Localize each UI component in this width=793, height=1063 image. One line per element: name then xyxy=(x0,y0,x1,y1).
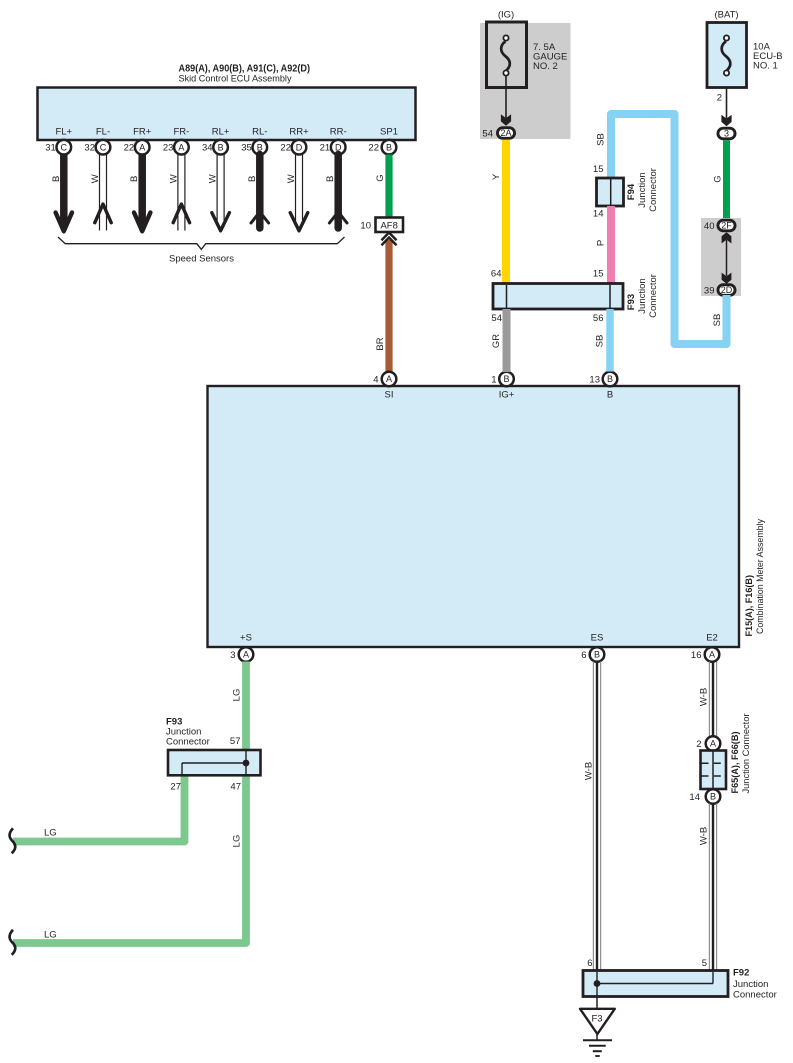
svg-text:RR-: RR- xyxy=(330,127,347,138)
svg-text:2A: 2A xyxy=(500,128,511,138)
junction connector F93 (upper) xyxy=(493,274,659,318)
svg-text:B: B xyxy=(607,390,613,401)
svg-text:22: 22 xyxy=(124,143,135,154)
svg-text:SI: SI xyxy=(385,390,394,401)
svg-text:F93: F93 xyxy=(626,294,637,310)
wire SB from 2D to F94 pin 15 xyxy=(595,114,726,344)
svg-text:3: 3 xyxy=(230,650,235,661)
svg-text:FL+: FL+ xyxy=(55,127,72,138)
wire W-B from E2 to F65 xyxy=(698,662,716,737)
svg-text:G: G xyxy=(712,175,723,182)
ECU pin 23 (A) FR- xyxy=(163,127,189,155)
svg-text:6: 6 xyxy=(581,650,586,661)
junction connector F65(A), F66(B) xyxy=(701,714,752,794)
svg-text:BR: BR xyxy=(375,337,386,350)
svg-text:57: 57 xyxy=(230,736,241,747)
svg-text:Junction: Junction xyxy=(637,278,648,313)
ECU pin 35 (B) RL- xyxy=(241,127,267,155)
svg-text:13: 13 xyxy=(589,375,600,386)
svg-text:39: 39 xyxy=(704,286,715,297)
wire break symbol (lower left 1) xyxy=(10,828,16,853)
svg-text:C: C xyxy=(100,142,107,152)
svg-text:A: A xyxy=(243,650,249,660)
svg-text:B: B xyxy=(594,650,600,660)
IG power gray block xyxy=(480,23,571,139)
svg-text:IG+: IG+ xyxy=(499,390,515,401)
svg-text:NO. 1: NO. 1 xyxy=(753,61,778,72)
speed sensor wire FR+ (B) xyxy=(129,155,150,232)
meter pin 16 (A) E2 xyxy=(691,632,719,662)
svg-text:P: P xyxy=(595,240,606,246)
svg-text:SB: SB xyxy=(712,314,723,327)
fuse 7.5A GAUGE NO.2 xyxy=(487,22,568,88)
svg-text:+S: +S xyxy=(240,632,252,643)
svg-text:54: 54 xyxy=(491,313,502,324)
speed sensor wire RR+ (W) xyxy=(286,155,308,231)
svg-text:(IG): (IG) xyxy=(498,10,514,21)
svg-text:F15(A), F16(B): F15(A), F16(B) xyxy=(744,575,755,637)
svg-text:32: 32 xyxy=(84,143,95,154)
speed sensor wire RR- (B) xyxy=(325,155,347,229)
double arrow 2F to 2D xyxy=(722,232,732,284)
meter pin 4 (A) SI xyxy=(373,372,396,401)
svg-text:SB: SB xyxy=(595,133,606,146)
svg-text:B: B xyxy=(503,374,509,384)
svg-text:2D: 2D xyxy=(721,285,733,295)
shield double chevron xyxy=(382,233,397,246)
svg-text:21: 21 xyxy=(320,143,331,154)
F94 pin 15 label xyxy=(593,164,604,175)
speed sensor wire RL- (B) xyxy=(247,155,269,229)
svg-text:LG: LG xyxy=(44,930,57,941)
fuse 10A ECU-B NO.1 xyxy=(707,23,783,88)
speed sensors brace xyxy=(58,237,345,265)
meter pin 3 (A) +S xyxy=(230,632,253,662)
junction connector F92 xyxy=(583,968,777,1001)
svg-text:47: 47 xyxy=(230,782,241,793)
svg-text:W-B: W-B xyxy=(698,688,709,706)
svg-text:Connector: Connector xyxy=(733,990,777,1001)
svg-text:F94: F94 xyxy=(626,183,637,200)
F93 lower pin 47 label xyxy=(230,782,241,793)
BAT pin 2 label xyxy=(717,93,722,104)
svg-text:35: 35 xyxy=(241,143,252,154)
svg-text:LG: LG xyxy=(231,689,242,702)
svg-text:54: 54 xyxy=(482,129,493,140)
svg-text:RR+: RR+ xyxy=(289,127,309,138)
junction connector F93 (lower) xyxy=(166,717,261,776)
ECU pin 22 (D) RR+ xyxy=(280,127,309,155)
svg-text:Connector: Connector xyxy=(648,168,659,212)
F93 pin 64 label xyxy=(491,269,502,280)
svg-text:E2: E2 xyxy=(706,632,718,643)
F93 lower pin 27 label xyxy=(170,782,181,793)
svg-text:Connector: Connector xyxy=(166,737,210,748)
svg-text:FR-: FR- xyxy=(173,127,189,138)
svg-text:ES: ES xyxy=(591,632,604,643)
svg-text:Skid Control ECU Assembly: Skid Control ECU Assembly xyxy=(179,74,292,85)
svg-text:C: C xyxy=(61,142,68,152)
ground F3 xyxy=(580,997,615,1057)
F93 pin 15 label xyxy=(593,269,604,280)
wire LG from F93 pin 27 to break xyxy=(13,776,185,842)
F94 pin 14 label xyxy=(593,209,604,220)
svg-text:Connector: Connector xyxy=(648,274,659,318)
wire BR from AF8 to SI xyxy=(375,240,389,372)
svg-text:4: 4 xyxy=(373,375,378,386)
svg-text:Combination Meter Assembly: Combination Meter Assembly xyxy=(755,519,766,634)
svg-text:SP1: SP1 xyxy=(380,127,398,138)
svg-text:LG: LG xyxy=(231,835,242,848)
connector AF8, pin 10 xyxy=(360,218,403,233)
combination meter assembly box F15/F16 xyxy=(208,386,767,647)
ECU pin 22 (A) FR+ xyxy=(124,127,152,155)
meter pin 13 (B) B xyxy=(589,372,617,401)
svg-text:22: 22 xyxy=(280,143,291,154)
F92 pin 5 label xyxy=(702,958,707,969)
label (BAT) xyxy=(714,10,738,21)
svg-text:Junction: Junction xyxy=(733,979,768,990)
svg-text:22: 22 xyxy=(368,143,379,154)
svg-text:3: 3 xyxy=(724,129,729,139)
F93 pin 56 label xyxy=(593,313,604,324)
svg-text:A: A xyxy=(178,142,184,152)
svg-text:NO. 2: NO. 2 xyxy=(533,61,558,72)
svg-text:GR: GR xyxy=(491,334,502,348)
svg-text:A: A xyxy=(709,650,715,660)
svg-text:Junction Connector: Junction Connector xyxy=(741,714,752,794)
ECU pin 21 (D) RR- xyxy=(320,127,347,155)
ECU pin 31 (C) FL+ xyxy=(45,127,72,155)
svg-text:(BAT): (BAT) xyxy=(714,10,738,21)
svg-text:B: B xyxy=(710,792,716,802)
svg-text:6: 6 xyxy=(587,958,592,969)
svg-text:B: B xyxy=(607,374,613,384)
arrow from fuse to 3 xyxy=(721,88,731,127)
svg-text:Junction: Junction xyxy=(637,172,648,207)
svg-text:A: A xyxy=(139,142,145,152)
svg-text:AF8: AF8 xyxy=(380,221,397,232)
svg-text:2: 2 xyxy=(717,93,722,104)
svg-text:W-B: W-B xyxy=(698,827,709,845)
wire GR from F93 to IG+ xyxy=(491,309,507,372)
svg-text:F65(A), F66(B): F65(A), F66(B) xyxy=(730,732,741,794)
svg-text:16: 16 xyxy=(691,650,702,661)
svg-text:2F: 2F xyxy=(721,221,732,231)
svg-text:W-B: W-B xyxy=(583,762,594,780)
F65 pin 14 (B) xyxy=(689,789,720,804)
connector 2A pin 54 xyxy=(482,128,514,140)
svg-text:G: G xyxy=(375,174,386,181)
arrow from fuse to 2A xyxy=(501,75,511,126)
F93 pin 54 label xyxy=(491,313,502,324)
svg-text:56: 56 xyxy=(593,313,604,324)
F65 pin 2 (A) xyxy=(696,736,720,751)
svg-text:27: 27 xyxy=(170,782,181,793)
wire W-B from F65 to F92 pin 5 xyxy=(698,804,716,971)
svg-text:40: 40 xyxy=(704,221,715,232)
svg-text:LG: LG xyxy=(44,828,57,839)
svg-text:31: 31 xyxy=(45,143,56,154)
svg-text:10: 10 xyxy=(360,221,371,232)
svg-text:Speed Sensors: Speed Sensors xyxy=(169,254,234,265)
wire Y from 2A to F93 pin 64 xyxy=(491,140,506,284)
skid control ECU assembly box A89/A90/A91/A92 xyxy=(38,63,416,141)
svg-text:SB: SB xyxy=(594,335,605,348)
label (IG) xyxy=(498,10,514,21)
wire SB from F93 to B xyxy=(594,309,610,372)
svg-text:14: 14 xyxy=(593,209,604,220)
svg-text:2: 2 xyxy=(696,739,701,750)
connector 3 xyxy=(718,128,735,139)
svg-text:1: 1 xyxy=(491,375,496,386)
svg-text:Y: Y xyxy=(491,173,502,180)
svg-text:FR+: FR+ xyxy=(133,127,152,138)
junction connector F94 xyxy=(597,168,659,212)
svg-text:F3: F3 xyxy=(591,1014,602,1025)
wire P from F94 to F93 pin 15 xyxy=(595,206,611,284)
svg-text:B: B xyxy=(218,142,224,152)
svg-text:A: A xyxy=(710,739,716,749)
wire LG from +S through F93 to break xyxy=(13,662,246,944)
svg-text:RL-: RL- xyxy=(252,127,267,138)
svg-text:15: 15 xyxy=(593,164,604,175)
wire G from SP1 to AF8 xyxy=(375,155,389,219)
svg-text:15: 15 xyxy=(593,269,604,280)
speed sensor wire FL- (W) xyxy=(90,155,111,231)
ECU pin 32 (C) FL- xyxy=(84,127,110,155)
meter pin 6 (B) ES xyxy=(581,632,604,662)
gray block 2F/2D xyxy=(701,218,741,296)
wire break symbol (lower left 2) xyxy=(10,930,16,955)
svg-text:14: 14 xyxy=(689,792,700,803)
speed sensor wire FR- (W) xyxy=(168,155,189,231)
wire W-B from ES to F92 pin 6 xyxy=(583,662,600,971)
F92 pin 6 label xyxy=(587,958,592,969)
svg-text:D: D xyxy=(296,142,303,152)
speed sensor wire FL+ (B) xyxy=(51,155,72,232)
speed sensor wire RL+ (W) xyxy=(208,155,230,231)
svg-text:FL-: FL- xyxy=(96,127,110,138)
F93 lower pin 57 label xyxy=(230,736,241,747)
ECU pin 34 (B) RL+ xyxy=(202,127,230,155)
connector 2D pin 39 xyxy=(704,285,735,297)
svg-text:F92: F92 xyxy=(733,968,749,979)
svg-text:64: 64 xyxy=(491,269,502,280)
ECU pin 22 (B) SP1 xyxy=(368,127,398,155)
svg-text:34: 34 xyxy=(202,143,213,154)
svg-text:A: A xyxy=(386,374,392,384)
wire G from 3 to 2F xyxy=(712,140,726,219)
svg-text:23: 23 xyxy=(163,143,174,154)
svg-text:RL+: RL+ xyxy=(212,127,230,138)
meter pin 1 (B) IG+ xyxy=(491,372,515,401)
svg-text:5: 5 xyxy=(702,958,707,969)
connector 2F pin 40 xyxy=(704,220,735,232)
svg-text:B: B xyxy=(386,142,392,152)
